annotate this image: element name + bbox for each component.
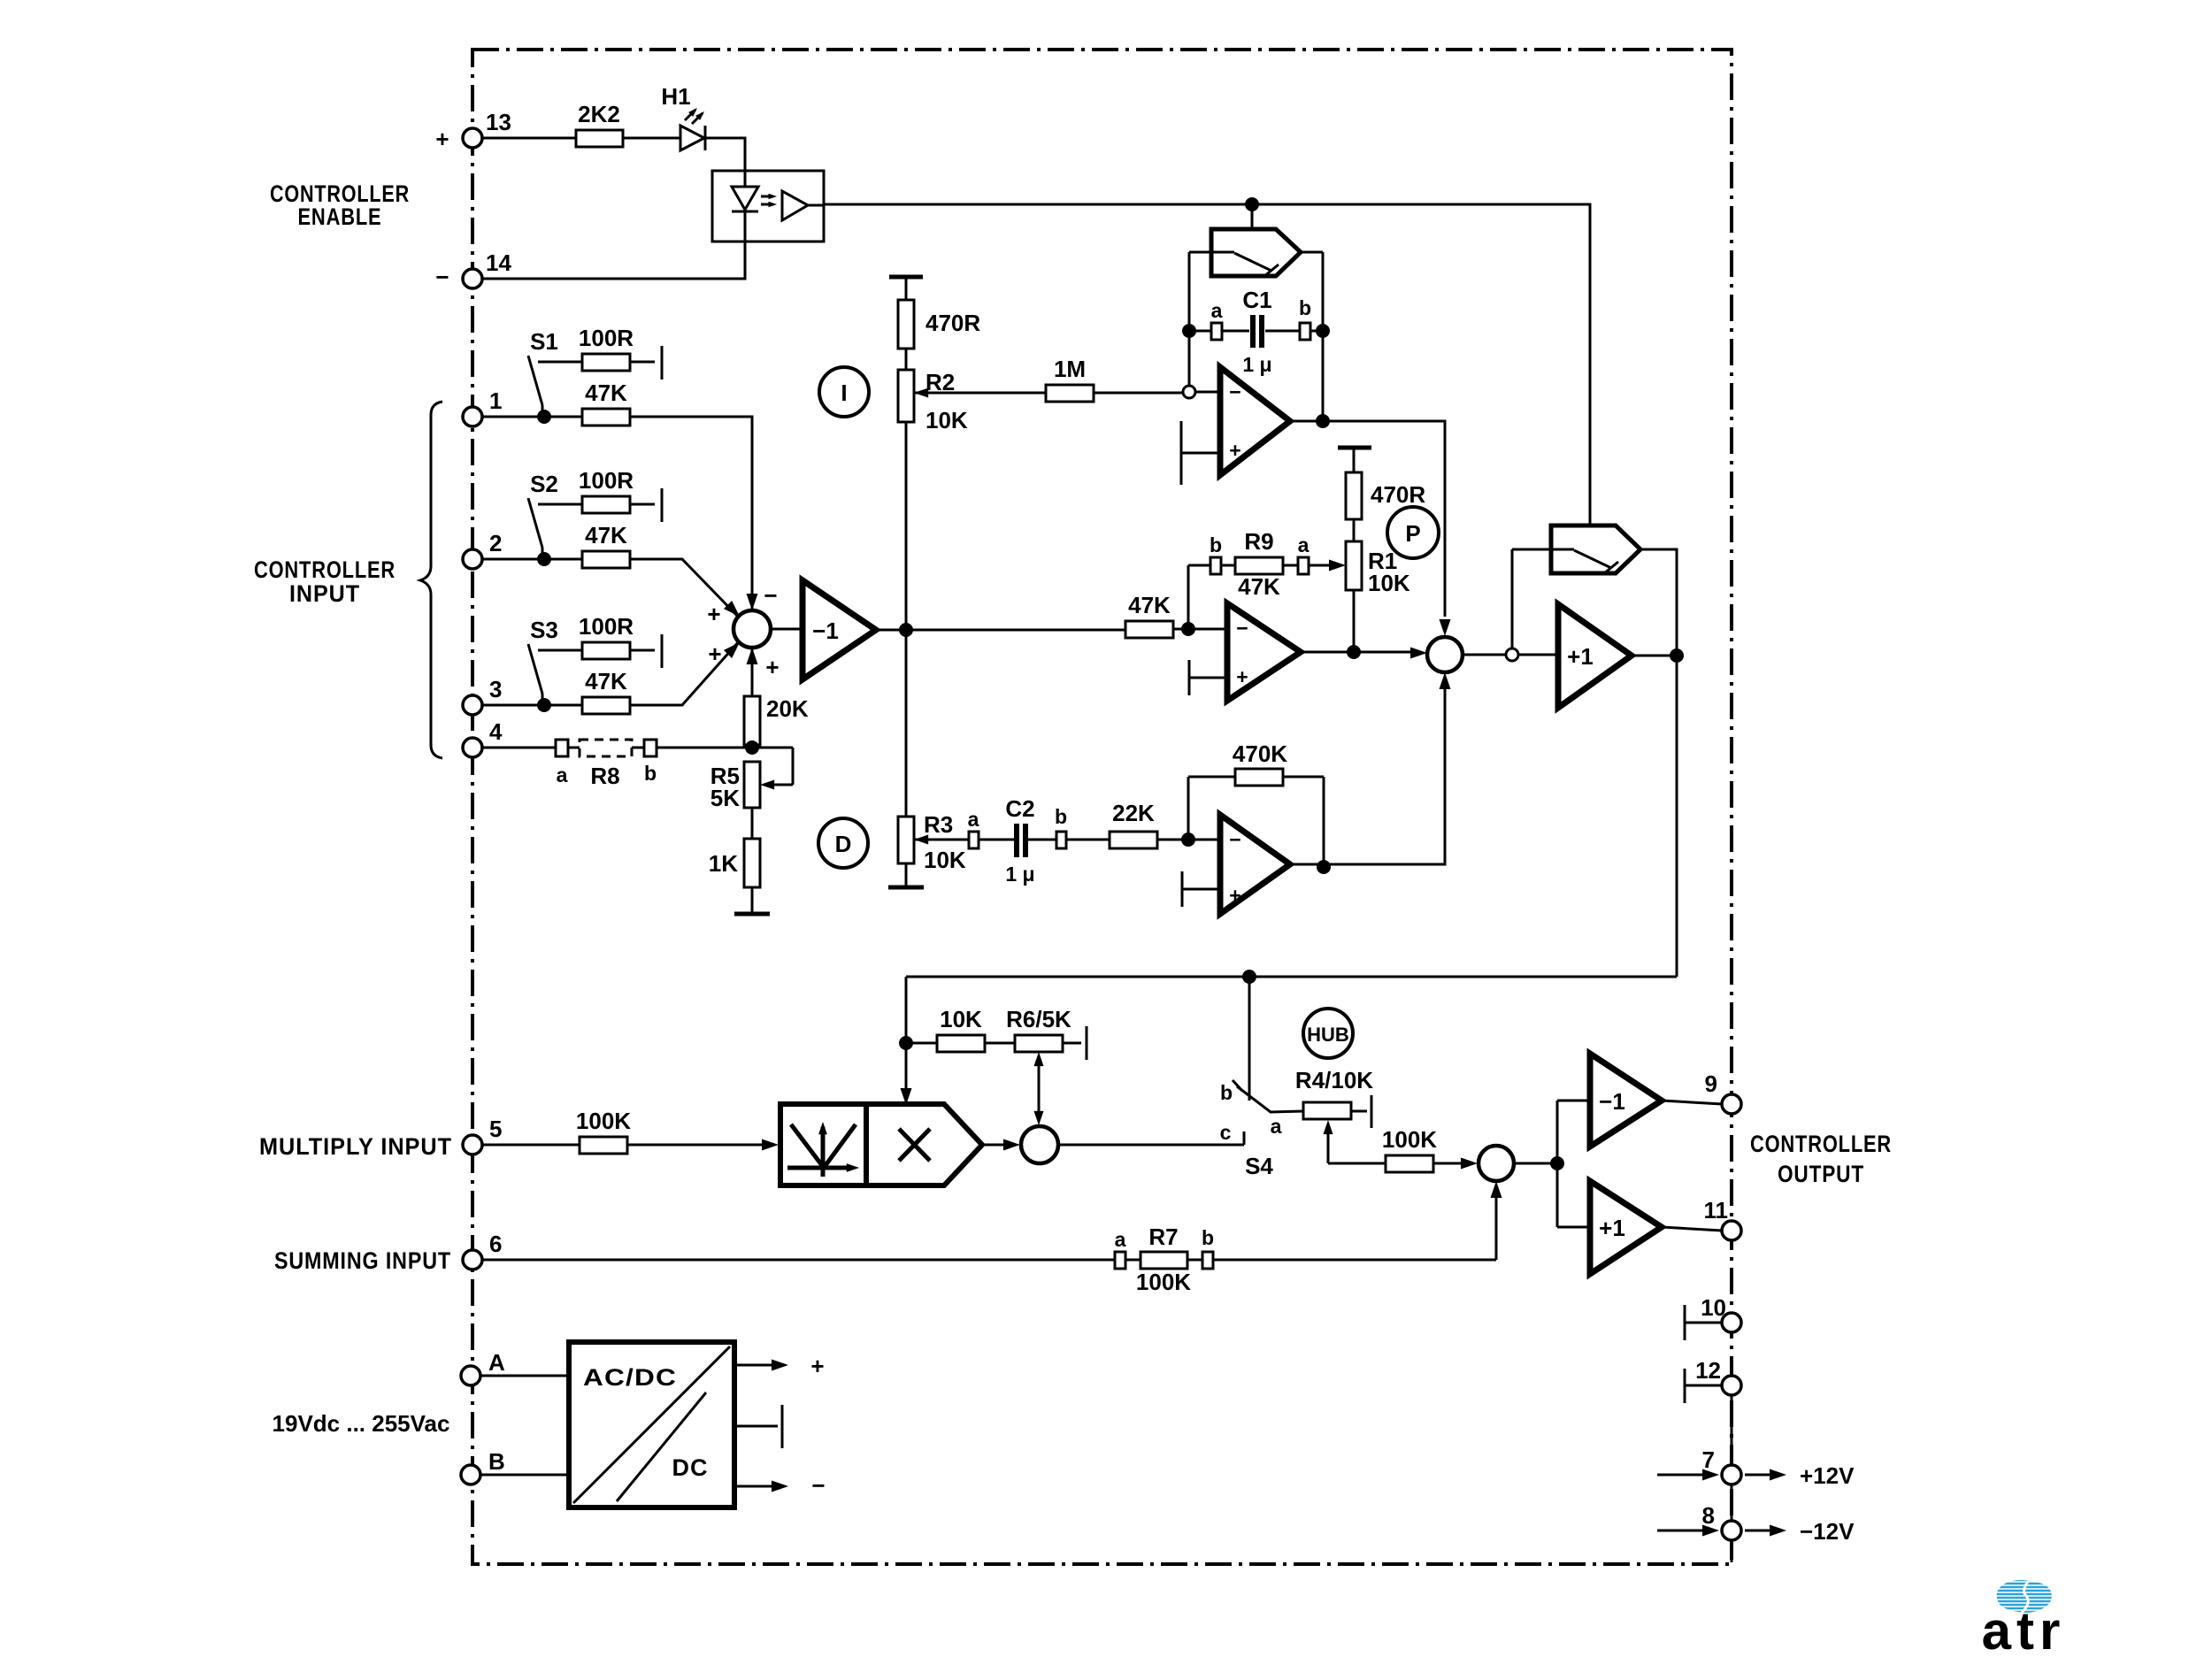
wire 100R(S3) to terminator bar [630, 634, 662, 668]
svg-text:19Vdc ... 255Vac: 19Vdc ... 255Vac [273, 1410, 450, 1437]
switch S2 [528, 498, 582, 559]
switch S1 [528, 356, 582, 417]
brace [420, 402, 442, 758]
svg-text:atr: atr [1982, 1601, 2066, 1661]
resistor 1M [1046, 385, 1094, 402]
svg-text:S1: S1 [530, 328, 558, 355]
svg-text:R7: R7 [1148, 1224, 1178, 1250]
terminal B [461, 1465, 480, 1484]
op-amp P [1227, 603, 1301, 701]
svg-text:8: 8 [1702, 1502, 1715, 1529]
wire sum S to output amps [1514, 1101, 1590, 1227]
resistor 470R (I) [898, 300, 914, 349]
svg-text:C1: C1 [1242, 287, 1271, 313]
svg-text:+1: +1 [1599, 1215, 1625, 1241]
svg-text:P: P [1405, 520, 1420, 547]
R7 socket a [1115, 1252, 1125, 1269]
svg-text:47K: 47K [585, 380, 627, 406]
wire 2K2 to H1 [623, 137, 680, 140]
svg-text:100K: 100K [576, 1108, 631, 1134]
junction S1 tap on input 1 [537, 410, 551, 424]
svg-text:+: + [708, 641, 721, 667]
wire 100R(S1) to terminator bar [630, 346, 662, 380]
svg-text:+12V: +12V [1800, 1462, 1855, 1489]
svg-text:−: − [435, 264, 449, 290]
C1 socket a [1211, 323, 1222, 340]
svg-text:+: + [707, 601, 720, 627]
potentiometer R1 10K [1346, 541, 1362, 590]
terminal 11 [1722, 1221, 1741, 1240]
R9 socket a [1298, 557, 1309, 574]
svg-text:S2: S2 [530, 471, 558, 497]
resistor 470K [1235, 769, 1283, 786]
svg-text:1M: 1M [1054, 356, 1086, 382]
op-amp D [1220, 815, 1290, 914]
ground (R3 bottom) [888, 886, 924, 890]
svg-text:2K2: 2K2 [578, 101, 620, 127]
feedback right vertical [1301, 252, 1323, 421]
D output [1290, 676, 1445, 864]
wire 100R(S2) to terminator bar [630, 488, 662, 522]
svg-text:5K: 5K [710, 785, 740, 811]
svg-text:+1: +1 [1567, 643, 1594, 670]
svg-text:+: + [1229, 884, 1240, 907]
junction 10K tap [899, 1036, 913, 1050]
junction output amps input node [1550, 1156, 1564, 1170]
svg-text:B: B [488, 1448, 505, 1475]
junction D amp inverting input [1181, 832, 1195, 847]
svg-text:470K: 470K [1233, 740, 1287, 767]
svg-text:−: − [764, 582, 777, 609]
enclosure border (dash-dot) [472, 50, 1732, 1564]
indicator circle I [819, 367, 869, 417]
svg-text:47K: 47K [585, 522, 627, 548]
svg-text:MULTIPLY INPUT: MULTIPLY INPUT [259, 1133, 452, 1160]
junction S2 tap on input 2 [537, 552, 551, 566]
svg-text:47K: 47K [1128, 592, 1171, 618]
indicator circle D [818, 818, 868, 868]
svg-text:100K: 100K [1136, 1269, 1191, 1295]
X symbol [899, 1129, 930, 1161]
R8 socket b [644, 740, 657, 756]
optocoupler U1 box [712, 171, 824, 242]
svg-text:S4: S4 [1245, 1153, 1273, 1179]
junction C1 b side [1316, 324, 1330, 338]
switch (+1 feedback) [1551, 525, 1640, 573]
ground 470R (P) [1338, 446, 1371, 450]
wire row 4 with R8 [482, 748, 793, 785]
summing input bottom arrow [1495, 1185, 1498, 1260]
wire terminal 14 to optocoupler [482, 242, 745, 279]
junction opto output branch [1245, 197, 1259, 211]
switch (I feedback) [1211, 229, 1301, 276]
terminal 4 [463, 738, 482, 757]
resistor 100R (S1) [582, 354, 630, 371]
svg-text:AC/DC: AC/DC [583, 1364, 677, 1391]
feedback up [1512, 549, 1551, 648]
ground D + input [1182, 871, 1220, 907]
terminal 9 [1722, 1094, 1741, 1114]
op-amp +1 (hold) [1558, 604, 1632, 708]
resistor 470R (P) [1346, 472, 1362, 519]
svg-text:a: a [557, 763, 568, 786]
resistor 47K (3) [582, 697, 630, 714]
svg-text:−1: −1 [812, 618, 839, 644]
svg-text:6: 6 [489, 1231, 502, 1257]
svg-text:100R: 100R [579, 613, 634, 640]
wire opto output to right [808, 204, 1590, 525]
svg-text:HUB: HUB [1307, 1024, 1349, 1046]
wire -1 out [876, 629, 1125, 632]
output wire down [906, 656, 1677, 1104]
wire sum to node [1463, 654, 1506, 656]
svg-text:10K: 10K [924, 847, 966, 873]
terminal 8 + arrows [1657, 1530, 1706, 1532]
node I amp input [1183, 386, 1195, 398]
svg-text:11: 11 [1704, 1197, 1729, 1224]
wire branch down to I switch [1251, 204, 1254, 229]
potentiometer R6/5K [1015, 1035, 1063, 1052]
- output [734, 1485, 772, 1488]
R8 socket a [556, 740, 568, 756]
svg-text:10: 10 [1701, 1294, 1726, 1321]
svg-text:b: b [1055, 805, 1067, 828]
svg-text:R9: R9 [1244, 528, 1273, 555]
svg-text:+: + [765, 654, 779, 680]
I output [1290, 421, 1445, 617]
LED H1 [680, 126, 704, 150]
svg-text:b: b [1220, 1081, 1233, 1104]
10K branch [906, 1042, 1015, 1045]
svg-text:I: I [841, 380, 847, 406]
wire R3 wiper to C2 [914, 839, 1110, 841]
feedback left vertical [1189, 252, 1211, 386]
P output [1301, 651, 1421, 654]
multiplier block [780, 1104, 982, 1185]
svg-text:10K: 10K [940, 1006, 982, 1032]
capacitor C2 [1017, 824, 1025, 857]
R8 dashed [580, 740, 632, 756]
row 1 wire [482, 417, 752, 616]
optocoupler light arrows [761, 196, 770, 204]
C1 socket b [1300, 323, 1310, 340]
S4 blade [1237, 1086, 1303, 1112]
potentiometer R5 5K [744, 762, 760, 808]
junction I amp output node [1316, 414, 1330, 428]
C1 row [1189, 330, 1323, 333]
ground [734, 912, 770, 917]
svg-text:c: c [1220, 1121, 1232, 1144]
svg-text:ENABLE: ENABLE [298, 203, 382, 230]
svg-text:OUTPUT: OUTPUT [1778, 1161, 1864, 1187]
svg-text:1 μ: 1 μ [1242, 353, 1271, 376]
resistor 100K (multiply) [580, 1137, 627, 1154]
svg-text:5: 5 [489, 1116, 502, 1142]
svg-text:47K: 47K [1238, 573, 1280, 600]
svg-text:470R: 470R [926, 310, 980, 336]
wire terminal 13 to 2K2 [482, 137, 576, 140]
svg-text:D: D [835, 831, 852, 857]
svg-text:470R: 470R [1371, 481, 1425, 508]
svg-text:b: b [1299, 296, 1311, 319]
terminal 2 [463, 549, 482, 569]
svg-text:−1: −1 [1599, 1088, 1625, 1115]
wire R4 to terminator bar [1351, 1095, 1371, 1128]
potentiometer R2 10K [898, 370, 914, 422]
svg-text:a: a [1115, 1228, 1126, 1251]
wire terminal 5 to 100K [482, 1144, 764, 1147]
R6 wiper double arrow [1038, 1055, 1041, 1122]
row 2 wire [482, 559, 740, 618]
svg-text:b: b [644, 762, 657, 785]
wire to S4 c contact [1058, 1132, 1244, 1145]
svg-text:−: − [1229, 828, 1240, 851]
svg-text:CONTROLLER: CONTROLLER [1750, 1131, 1892, 1157]
svg-text:4: 4 [489, 718, 503, 745]
svg-text:12: 12 [1695, 1357, 1721, 1384]
terminal A [461, 1366, 480, 1385]
svg-text:+: + [810, 1353, 824, 1379]
svg-text:2: 2 [489, 530, 502, 556]
op-amp -1 (output 9) [1590, 1054, 1662, 1147]
feedback 470K [1188, 777, 1324, 867]
op-amp +1 (output 11) [1590, 1181, 1662, 1274]
svg-text:SUMMING INPUT: SUMMING INPUT [274, 1247, 451, 1274]
svg-text:3: 3 [489, 676, 502, 702]
svg-text:b: b [1202, 1226, 1214, 1249]
resistor 100R (S3) [582, 642, 630, 659]
svg-text:7: 7 [1702, 1446, 1715, 1473]
summing circle P [1427, 637, 1463, 672]
svg-text:a: a [1211, 299, 1223, 322]
resistor 20K body [744, 696, 760, 745]
svg-text:100R: 100R [579, 467, 634, 494]
terminal 5 [463, 1135, 482, 1155]
junction P amp inverting input [1181, 622, 1195, 636]
svg-text:a: a [968, 808, 979, 831]
svg-text:10K: 10K [1368, 570, 1410, 596]
svg-text:S3: S3 [530, 617, 558, 643]
capacitor C1 [1253, 315, 1262, 348]
svg-text:9: 9 [1705, 1070, 1717, 1097]
C2 socket b [1056, 832, 1066, 848]
summing circle S [1479, 1146, 1514, 1181]
svg-text:100K: 100K [1382, 1126, 1437, 1153]
resistor R7 100K [1141, 1252, 1187, 1269]
top input arrow [901, 1088, 912, 1105]
junction S4 branch [1242, 970, 1256, 984]
junction terminal 4 / 20K / R5 [745, 740, 759, 755]
node +1 input [1506, 648, 1518, 661]
terminal 12 + ground [1685, 1369, 1722, 1403]
svg-text:a: a [1298, 533, 1310, 556]
terminal 13 [463, 128, 482, 148]
junction D amp output node [1317, 860, 1331, 874]
svg-text:+: + [1236, 665, 1248, 688]
wire H1 to optocoupler [705, 138, 745, 171]
AC/DC converter box [569, 1342, 734, 1507]
S4 pole from above [1233, 977, 1249, 1101]
resistor 100K (output) [1386, 1155, 1433, 1172]
svg-text:1: 1 [489, 387, 502, 414]
svg-text:a: a [1271, 1115, 1282, 1138]
resistor R9 47K [1235, 557, 1283, 574]
row 3 wire [482, 641, 740, 705]
terminal 3 [463, 695, 482, 715]
terminal 10 + ground [1685, 1305, 1722, 1340]
terminal 1 [463, 407, 482, 426]
svg-text:R8: R8 [590, 763, 619, 789]
svg-text:1K: 1K [709, 850, 738, 877]
multiplier output [982, 1144, 1005, 1147]
svg-text:10K: 10K [926, 407, 968, 433]
wire -1 out to 47K [1125, 621, 1173, 638]
terminal 14 [463, 269, 482, 288]
switch S3 [528, 644, 582, 705]
wires A/B to converter [480, 1376, 569, 1475]
junction hold amp output node [1670, 648, 1684, 663]
indicator circle P [1387, 507, 1439, 558]
svg-text:b: b [1210, 533, 1222, 556]
ground I + input [1181, 421, 1220, 485]
svg-text:22K: 22K [1112, 800, 1155, 826]
summing circle input [733, 610, 771, 648]
resistor 47K (1) [582, 409, 630, 426]
wire border segments at terminals 7/8 [1731, 1395, 1733, 1562]
svg-text:−12V: −12V [1800, 1518, 1855, 1545]
svg-text:CONTROLLER: CONTROLLER [254, 556, 396, 583]
svg-text:14: 14 [486, 249, 511, 276]
ground P + input [1189, 660, 1227, 695]
circle HUB [1303, 1009, 1353, 1058]
optocoupler phototransistor [782, 191, 808, 220]
svg-text:−: − [1236, 617, 1248, 640]
svg-text:DC: DC [672, 1454, 709, 1481]
C2 socket a [969, 832, 979, 848]
mid output to bar [734, 1405, 782, 1448]
resistor 2K2 [576, 130, 623, 147]
terminal 6 [463, 1250, 482, 1270]
svg-text:13: 13 [486, 109, 511, 135]
R9 branch [1188, 565, 1339, 629]
optocoupler LED [744, 171, 747, 242]
svg-text:R4/10K: R4/10K [1295, 1067, 1373, 1093]
svg-text:−: − [1229, 380, 1240, 403]
svg-text:+: + [435, 126, 449, 152]
svg-text:C2: C2 [1005, 795, 1034, 822]
resistor 47K (2) [582, 551, 630, 568]
abs-value symbol [791, 1124, 856, 1168]
wire sum bottom to 20K [751, 648, 754, 748]
svg-text:100R: 100R [579, 325, 634, 351]
wire R6 to terminator bar [1063, 1026, 1087, 1060]
svg-text:INPUT: INPUT [289, 580, 360, 607]
switch right to output [1640, 549, 1677, 656]
wire R2 wiper to 1M [914, 392, 1046, 395]
R7 socket b [1202, 1252, 1213, 1269]
wire R3 to ground [905, 863, 908, 887]
junction S3 tap on input 3 [537, 698, 551, 712]
junction C1 a side [1182, 324, 1196, 338]
svg-text:1 μ: 1 μ [1005, 863, 1034, 886]
potentiometer R3 10K [898, 817, 914, 863]
op-amp -1 (inverter) [803, 580, 876, 679]
wire sum to -1 amp [771, 628, 803, 631]
svg-text:A: A [488, 1349, 505, 1376]
terminal 7 + arrows [1657, 1474, 1706, 1477]
ground top [889, 275, 923, 280]
R9 socket b [1210, 557, 1221, 574]
svg-text:R6/5K: R6/5K [1006, 1006, 1071, 1032]
resistor 22K [1110, 832, 1157, 848]
junction -1 output node [899, 623, 913, 637]
wire R4 wiper to 100K [1328, 1162, 1463, 1165]
svg-text:−: − [811, 1472, 825, 1499]
svg-text:20K: 20K [766, 695, 809, 722]
svg-text:47K: 47K [585, 668, 627, 694]
summing circle M [1021, 1126, 1058, 1163]
resistor 1K [751, 808, 754, 914]
+ output [734, 1364, 772, 1367]
junction R1 bottom / P output [1347, 645, 1361, 659]
svg-text:R3: R3 [924, 811, 953, 838]
svg-text:H1: H1 [661, 83, 690, 110]
resistor 100R (S2) [582, 496, 630, 513]
svg-text:+: + [1229, 439, 1240, 462]
op-amp I [1220, 367, 1290, 475]
